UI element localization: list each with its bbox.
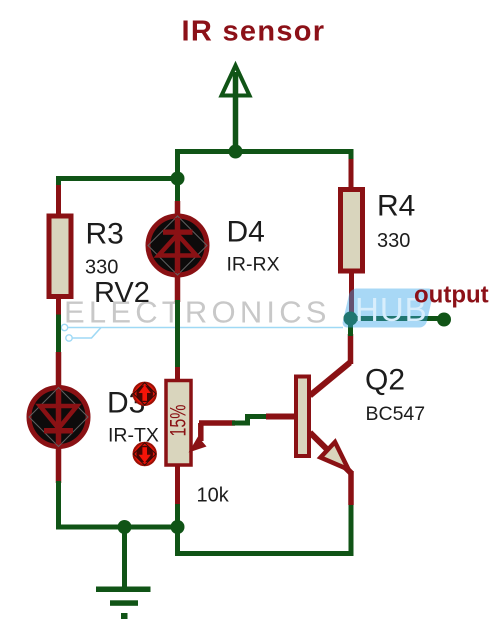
junction pot bottom [171,520,185,534]
watermark HUB box [341,289,434,329]
svg-text:15%: 15% [166,405,191,437]
svg-text:Q2: Q2 [365,364,405,397]
label D4 [227,216,265,249]
watermark text ELECTRONICS [64,295,331,330]
LED D3 [29,352,88,483]
svg-text:RV2: RV2 [94,277,150,309]
label IR-TX [108,425,159,447]
junction power [229,145,243,159]
label 15% [166,405,191,437]
wire D4 to RV2 [175,300,180,369]
svg-text:output: output [414,282,489,309]
label output [414,282,489,309]
wire top rail [178,152,352,204]
potentiometer RV2 [166,367,235,506]
terminal output dot [437,313,451,327]
label RV2 [94,277,150,309]
svg-text:330: 330 [377,230,410,252]
wire ground rail [59,525,178,530]
junction output [344,312,358,326]
label D3 [107,387,145,420]
label Q2 [365,364,405,397]
svg-text:IR sensor: IR sensor [182,16,326,48]
label R3 [86,218,124,251]
wire output [351,316,444,321]
power terminal arrow [222,66,250,154]
pot button up [134,383,156,405]
ground [96,527,151,619]
transistor Q2 [266,334,351,505]
svg-text:R4: R4 [377,190,415,223]
wire R3 to D3 [56,315,61,355]
resistor R3 [49,185,71,317]
svg-text:10k: 10k [197,485,230,507]
svg-text:IR-TX: IR-TX [108,425,159,447]
wire D3 to ground rail [56,481,61,530]
label 330 (R3) [85,257,118,279]
pot button down [134,443,156,465]
label IR-RX [227,254,280,276]
LED D4 [148,201,207,302]
wire pot bottom / bottom rail / emitter riser [178,503,352,554]
wire left branch [59,179,178,188]
wire collector stub [348,319,353,337]
resistor R4 [341,159,363,317]
label R4 [377,190,415,223]
junction left branch [171,172,185,186]
label 10k [197,485,230,507]
label BC547 [366,403,426,425]
title IR sensor [182,16,326,48]
svg-text:D4: D4 [227,216,265,249]
svg-text:330: 330 [85,257,118,279]
junction ground tap [118,520,132,534]
watermark trace line [61,324,343,341]
svg-text:R3: R3 [86,218,124,251]
label 330 (R4) [377,230,410,252]
svg-text:IR-RX: IR-RX [227,254,280,276]
wire pot wiper to Q2 base [232,414,268,426]
svg-text:BC547: BC547 [366,403,426,425]
